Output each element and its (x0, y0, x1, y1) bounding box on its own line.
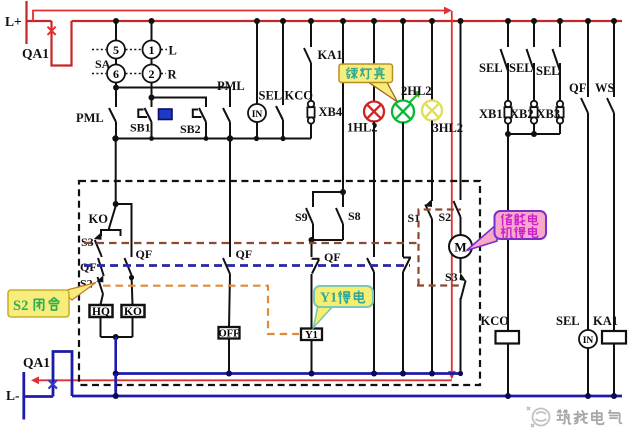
svg-text:SEL: SEL (479, 61, 503, 75)
wire 2HL2 branch (400, 18, 406, 101)
contact QF (Y1 branch) (312, 240, 341, 329)
wire rail B (152, 98, 207, 108)
svg-text:SA: SA (95, 57, 111, 71)
svg-text:S8: S8 (348, 209, 361, 223)
svg-text:SB1: SB1 (130, 121, 151, 135)
contact SEL1 (charging) (479, 18, 511, 101)
contact KA1 (top) (304, 18, 343, 63)
coil KA1 (593, 113, 626, 396)
wire 1HL2 down (373, 122, 375, 258)
svg-text:R: R (168, 68, 178, 82)
svg-text:SEL: SEL (509, 61, 533, 75)
contact PML right pole (223, 107, 230, 139)
wire S9/S8 join (309, 237, 344, 243)
switch SA terminal 1 (143, 41, 161, 59)
wire SA-2 down (149, 83, 155, 108)
wire rail C to QF mid (229, 139, 231, 258)
wire 3HL2 branch (429, 18, 435, 101)
svg-text:L: L (169, 44, 177, 58)
callout storage-motor-energized (467, 211, 547, 251)
wire bus to SA-1 (149, 18, 155, 41)
lamp 2HL2 (392, 84, 432, 123)
svg-text:5: 5 (113, 43, 119, 57)
contact QF (KO branch) (125, 247, 153, 305)
watermark logo (527, 407, 550, 427)
svg-text:XB2: XB2 (510, 107, 534, 121)
callout green-lamp-on (339, 64, 398, 102)
connector XB1 (479, 63, 512, 134)
wire L- bus (upper) (116, 372, 461, 375)
wire join to L- bus (114, 337, 117, 374)
svg-text:S9: S9 (295, 210, 308, 224)
motor M (449, 235, 472, 258)
wire rail A (116, 88, 230, 108)
wire HQ-KO join (101, 334, 133, 340)
svg-text:QF: QF (80, 260, 97, 274)
contact S2 (left chain) (80, 275, 104, 305)
contact S3 (left chain) (81, 232, 102, 256)
wire red flow annotation (top) (33, 7, 452, 21)
svg-text:OFF: OFF (219, 328, 240, 339)
lamp 1HL2 (347, 102, 384, 135)
wire Y1 to L- bus (311, 340, 313, 374)
coil Y1 (301, 329, 322, 341)
svg-text:XB4: XB4 (319, 105, 343, 119)
svg-text:HQ: HQ (92, 306, 110, 318)
dashed mechanism box (79, 181, 480, 385)
switch SA terminal 6 (107, 65, 125, 83)
contact SEL3 (charging) (536, 18, 563, 101)
contact PML left pole (109, 107, 116, 139)
green arrow annotation (408, 91, 421, 105)
pushbutton SB2 (180, 107, 206, 139)
QA1 contact cross mark (48, 27, 56, 35)
wire 3HL2 down (431, 121, 433, 202)
svg-text:3HL2: 3HL2 (433, 121, 464, 135)
label KCO (row) (285, 89, 314, 103)
breaker QA1 (top) (22, 21, 72, 66)
switch SA terminal 2 (143, 65, 161, 83)
wire L- bus (lower) (72, 393, 622, 399)
connector XB4 (307, 63, 342, 139)
svg-text:IN: IN (252, 110, 263, 120)
callout S2-closed (8, 283, 96, 318)
connector XB2 (510, 63, 538, 134)
svg-text:QF: QF (569, 81, 587, 95)
wire rail C to node A (115, 139, 117, 205)
wire SA-6 down (113, 83, 119, 108)
svg-text:QF: QF (236, 247, 253, 261)
svg-text:PML: PML (76, 111, 104, 125)
wire HQ down (100, 317, 102, 337)
lamp 3HL2 (422, 101, 463, 136)
wire red flow annotation (bottom) (31, 376, 452, 384)
wire SA 1-2 (151, 59, 153, 65)
svg-text:XB3: XB3 (537, 107, 561, 121)
svg-text:1: 1 (149, 43, 155, 57)
contact QF (left chain) (80, 256, 104, 275)
dashed box (brown) S1 region (417, 210, 461, 286)
svg-text:2HL2: 2HL2 (401, 84, 432, 98)
wire 1HL2 branch (371, 18, 377, 102)
svg-text:SB2: SB2 (180, 122, 201, 136)
svg-text:Y1: Y1 (305, 330, 318, 341)
contact SEL (276, 18, 286, 139)
wire L- lead (24, 395, 53, 398)
dashed line (brown) S3 row (84, 242, 417, 244)
wire KO down (132, 317, 134, 337)
contact on 1HL2 line (367, 257, 374, 374)
svg-text:KO: KO (124, 306, 142, 318)
contact WS (595, 18, 617, 113)
svg-text:SEL: SEL (536, 64, 560, 78)
label L (169, 44, 177, 58)
svg-text:SEL: SEL (259, 89, 283, 103)
contact S2 (M branch) (439, 18, 464, 235)
contact on 2HL2 line (403, 257, 411, 374)
watermark text (557, 410, 621, 424)
svg-text:KA1: KA1 (593, 314, 618, 328)
contact QF (right) (569, 18, 591, 113)
contact SEL2 (charging) (509, 18, 537, 101)
svg-text:QF: QF (324, 250, 341, 264)
meter IN (bottom) / SEL lamp (556, 113, 597, 396)
coil HQ (90, 305, 113, 318)
wire KCO to L- (507, 344, 509, 397)
svg-text:L-: L- (6, 388, 20, 403)
pushbutton SB1 (130, 107, 152, 139)
svg-text:S3: S3 (445, 270, 458, 284)
callout Y1-energized (314, 286, 374, 328)
label SA (95, 57, 111, 71)
switch SA terminal 5 (107, 41, 125, 59)
breaker QA1 (bottom) (23, 352, 72, 397)
wire rail C (112, 135, 311, 141)
dashed line (blue) QF row (84, 264, 410, 267)
svg-text:6: 6 (113, 67, 119, 81)
svg-text:WS: WS (595, 81, 615, 95)
coil OFF (219, 327, 240, 339)
svg-text:2: 2 (149, 67, 155, 81)
svg-text:L+: L+ (5, 14, 22, 29)
contact S1 (408, 199, 433, 374)
svg-text:KCO: KCO (285, 89, 314, 103)
wire S9 jog (313, 192, 343, 207)
contact S8 (336, 192, 361, 240)
svg-text:IN: IN (583, 336, 594, 346)
svg-text:QF: QF (136, 247, 153, 261)
indicator icon (blue) (159, 109, 173, 120)
svg-text:XB1: XB1 (479, 107, 503, 121)
svg-text:M: M (454, 240, 466, 255)
label KCO (coil) (481, 314, 510, 328)
wire to KCO coil (507, 134, 509, 331)
contact KO (latch) (89, 206, 121, 236)
wire OFF to L- bus (228, 339, 230, 374)
contact S3 (M branch) (445, 258, 466, 374)
node A (113, 201, 119, 207)
contact QF (middle) (223, 247, 252, 327)
dashed path (orange) S2 to Y1 (103, 286, 299, 334)
junctions on upper L- bus (113, 371, 463, 377)
wire upper-lower L- link (114, 374, 117, 397)
label PML (left) (76, 111, 104, 125)
coil KCO (496, 331, 520, 344)
wire bus to SA-5 (113, 18, 119, 41)
wire L+ to QA1 (27, 20, 52, 22)
SA linkage dotted row 1 (92, 49, 167, 51)
svg-text:S2: S2 (439, 210, 452, 224)
svg-text:SEL: SEL (556, 314, 580, 328)
SA linkage dotted row 2 (92, 73, 166, 75)
svg-text:1HL2: 1HL2 (347, 121, 378, 135)
wire 2HL2 down (402, 123, 404, 258)
wire red flow annotation (vertical) (448, 11, 456, 380)
wire XB join rail (505, 131, 560, 137)
contact S9 (295, 208, 313, 240)
wire branch to QF-KO (116, 204, 132, 257)
svg-text:QA1: QA1 (22, 46, 49, 61)
wire SA 5-6 (115, 59, 117, 65)
label R (168, 68, 178, 82)
svg-text:KA1: KA1 (318, 48, 343, 62)
svg-text:KCO: KCO (481, 314, 510, 328)
coil KO (122, 305, 145, 318)
label PML (right) (217, 79, 245, 93)
svg-text:QA1: QA1 (23, 355, 50, 370)
meter IN (top) (248, 18, 266, 139)
wire L+ bus (72, 20, 623, 22)
connector XB3 (537, 63, 564, 134)
svg-text:KO: KO (89, 212, 109, 226)
node L- terminal (6, 372, 24, 420)
QA1 bottom cross mark (49, 380, 58, 389)
svg-text:Y1: Y1 (320, 291, 337, 306)
node L+ terminal (5, 1, 27, 44)
svg-text:PML: PML (217, 79, 245, 93)
wire bus to S9/S8 (340, 18, 346, 195)
label SEL (row) (259, 89, 283, 103)
svg-text:S2: S2 (13, 298, 28, 314)
